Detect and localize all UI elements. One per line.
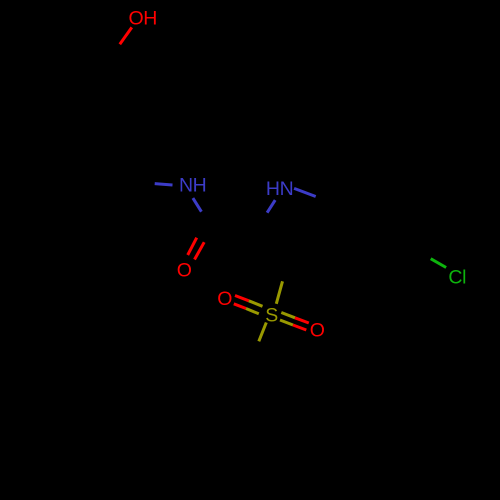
svg-text:NH: NH xyxy=(179,175,206,197)
svg-text:O: O xyxy=(177,260,192,282)
svg-text:O: O xyxy=(310,319,325,341)
svg-text:OH: OH xyxy=(129,7,157,29)
svg-text:Cl: Cl xyxy=(448,267,466,289)
svg-text:HN: HN xyxy=(266,178,293,200)
svg-text:S: S xyxy=(265,305,278,327)
svg-text:O: O xyxy=(217,288,232,310)
